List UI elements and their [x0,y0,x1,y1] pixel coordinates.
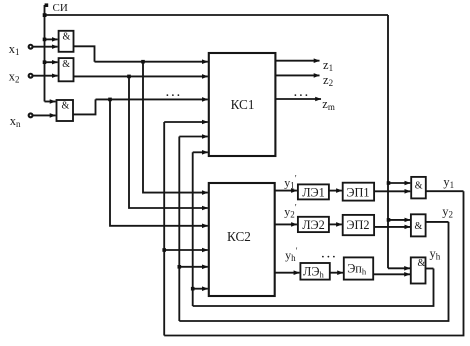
svg-text:. . .: . . . [166,87,180,99]
svg-text:КС2: КС2 [227,229,251,244]
svg-text:y1′: y1′ [284,173,297,190]
svg-text:&: & [418,258,426,269]
svg-text:zm: zm [322,97,335,112]
svg-text:xn: xn [10,114,21,129]
svg-text:ЛЭ1: ЛЭ1 [302,185,325,199]
svg-text:. . .: . . . [322,249,336,261]
svg-text:Эпh: Эпh [347,261,367,276]
svg-text:ЭП2: ЭП2 [346,218,369,232]
svg-text:ЭП1: ЭП1 [346,185,369,199]
svg-text:&: & [415,180,423,191]
svg-text:&: & [415,221,423,232]
svg-text:ЛЭh: ЛЭh [303,264,324,279]
svg-text:x2: x2 [9,70,20,85]
svg-text:yh′: yh′ [285,246,298,263]
svg-text:&: & [63,32,71,43]
svg-text:x1: x1 [9,42,20,57]
svg-text:yh: yh [430,247,441,262]
svg-text:z2: z2 [323,73,333,88]
svg-text:&: & [62,59,70,70]
svg-text:СИ: СИ [53,2,68,14]
svg-text:ЛЭ2: ЛЭ2 [302,218,325,232]
svg-text:y1: y1 [443,175,454,190]
svg-text:z1: z1 [323,58,333,73]
svg-text:. . .: . . . [294,87,308,99]
svg-text:КС1: КС1 [231,97,255,112]
svg-text:y2′: y2′ [284,202,297,219]
svg-text:&: & [62,101,70,112]
svg-text:y2: y2 [442,205,453,220]
